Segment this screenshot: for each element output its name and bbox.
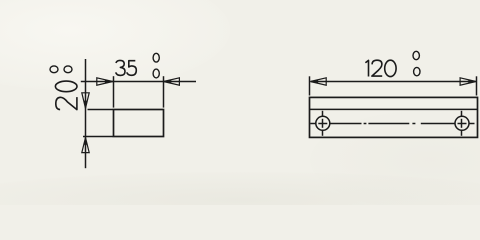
plate outline rectangle bbox=[114, 110, 164, 137]
paper highlight top-left bbox=[0, 0, 230, 90]
extension line bottom of dim 20 bbox=[83, 136, 113, 138]
arrow left of dim 120 (open, points left) bbox=[310, 78, 326, 85]
extension line top of dim 20 bbox=[88, 109, 114, 111]
centerline dash-dot between holes bbox=[330, 123, 455, 125]
extension line left of dim 120 bbox=[309, 76, 311, 95]
hole left center mark bbox=[310, 111, 327, 136]
arrow right of dim 120 (open, points right) bbox=[460, 78, 476, 85]
tolerance zeros of dim 20 (rotated 90) bbox=[50, 66, 72, 73]
tolerance zeros of dim 35 bbox=[153, 53, 159, 78]
arrow bottom of dim 20 (open, points up) bbox=[82, 138, 89, 153]
arrow top of dim 20 (open, points down) bbox=[82, 93, 89, 108]
dimension text 120 bbox=[365, 60, 396, 76]
arrow right of dim 35 (open, points left) bbox=[164, 78, 180, 85]
dimension text 35 bbox=[116, 60, 137, 75]
bar inner edge line bbox=[310, 108, 478, 110]
dimension text 20 (rotated 90) bbox=[55, 81, 77, 110]
dimension line 35 bbox=[81, 81, 196, 83]
extension line right of dim 120 bbox=[476, 76, 478, 95]
arrow left of dim 35 (open, points right) bbox=[97, 78, 113, 85]
hole right center mark bbox=[458, 111, 475, 136]
dimension line 120 bbox=[311, 81, 476, 83]
extension line left of dim 35 bbox=[113, 76, 115, 107]
dimension line 20 bbox=[85, 59, 87, 168]
paper shading right bbox=[310, 110, 480, 210]
paper shading bottom bbox=[0, 172, 480, 228]
bar outline rectangle bbox=[310, 97, 478, 137]
hole right circle bbox=[455, 116, 469, 130]
extension line right of dim 35 bbox=[163, 76, 165, 107]
tolerance zeros of dim 120 bbox=[413, 51, 420, 76]
hole left circle bbox=[316, 116, 330, 130]
